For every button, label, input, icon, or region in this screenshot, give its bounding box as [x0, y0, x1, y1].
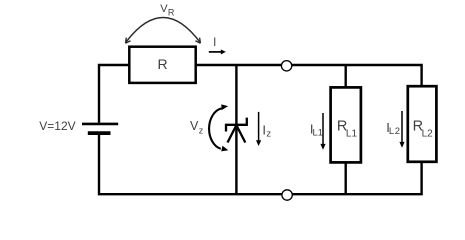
current arrow IL2: [399, 111, 404, 148]
current arrow Iz: [256, 112, 261, 146]
svg-text:z: z: [266, 129, 271, 140]
resistor RL1: [331, 87, 361, 162]
svg-text:R: R: [157, 56, 167, 72]
svg-text:I: I: [213, 37, 216, 49]
voltage arc Vz: [209, 104, 228, 151]
svg-text:L: L: [389, 126, 394, 137]
svg-text:R: R: [168, 8, 175, 18]
svg-text:V=12V: V=12V: [39, 119, 75, 133]
svg-text:V: V: [190, 119, 199, 133]
battery V1 plates: [82, 124, 118, 133]
svg-text:L1: L1: [313, 127, 324, 138]
node terminal bottom: [282, 190, 292, 200]
wire: RL1 bottom stub: [345, 162, 347, 194]
resistor RL2: [408, 86, 437, 162]
wire: resistor to top terminal: [196, 64, 282, 66]
current arrow I: [209, 49, 226, 54]
wire: top terminal to top-right corner down to RL2: [292, 65, 422, 86]
current arrow IL1: [320, 113, 325, 150]
svg-text:z: z: [199, 125, 204, 135]
node terminal top: [281, 61, 291, 71]
svg-text:L1: L1: [346, 128, 358, 139]
wire: battery bottom to bottom-left corner and bottom wire to terminal: [99, 135, 282, 194]
wire: bottom terminal to bottom-right corner up to RL2: [292, 162, 421, 194]
svg-text:2: 2: [395, 126, 400, 137]
wire: zener branch vertical: [235, 65, 237, 194]
voltage arc VR: [126, 18, 201, 44]
wire: RL1 top stub: [345, 65, 347, 88]
svg-text:L2: L2: [422, 128, 434, 139]
zener diode D1: [226, 118, 247, 143]
resistor R: [129, 47, 195, 83]
wire: left rail top + top wire to resistor: [99, 65, 130, 123]
